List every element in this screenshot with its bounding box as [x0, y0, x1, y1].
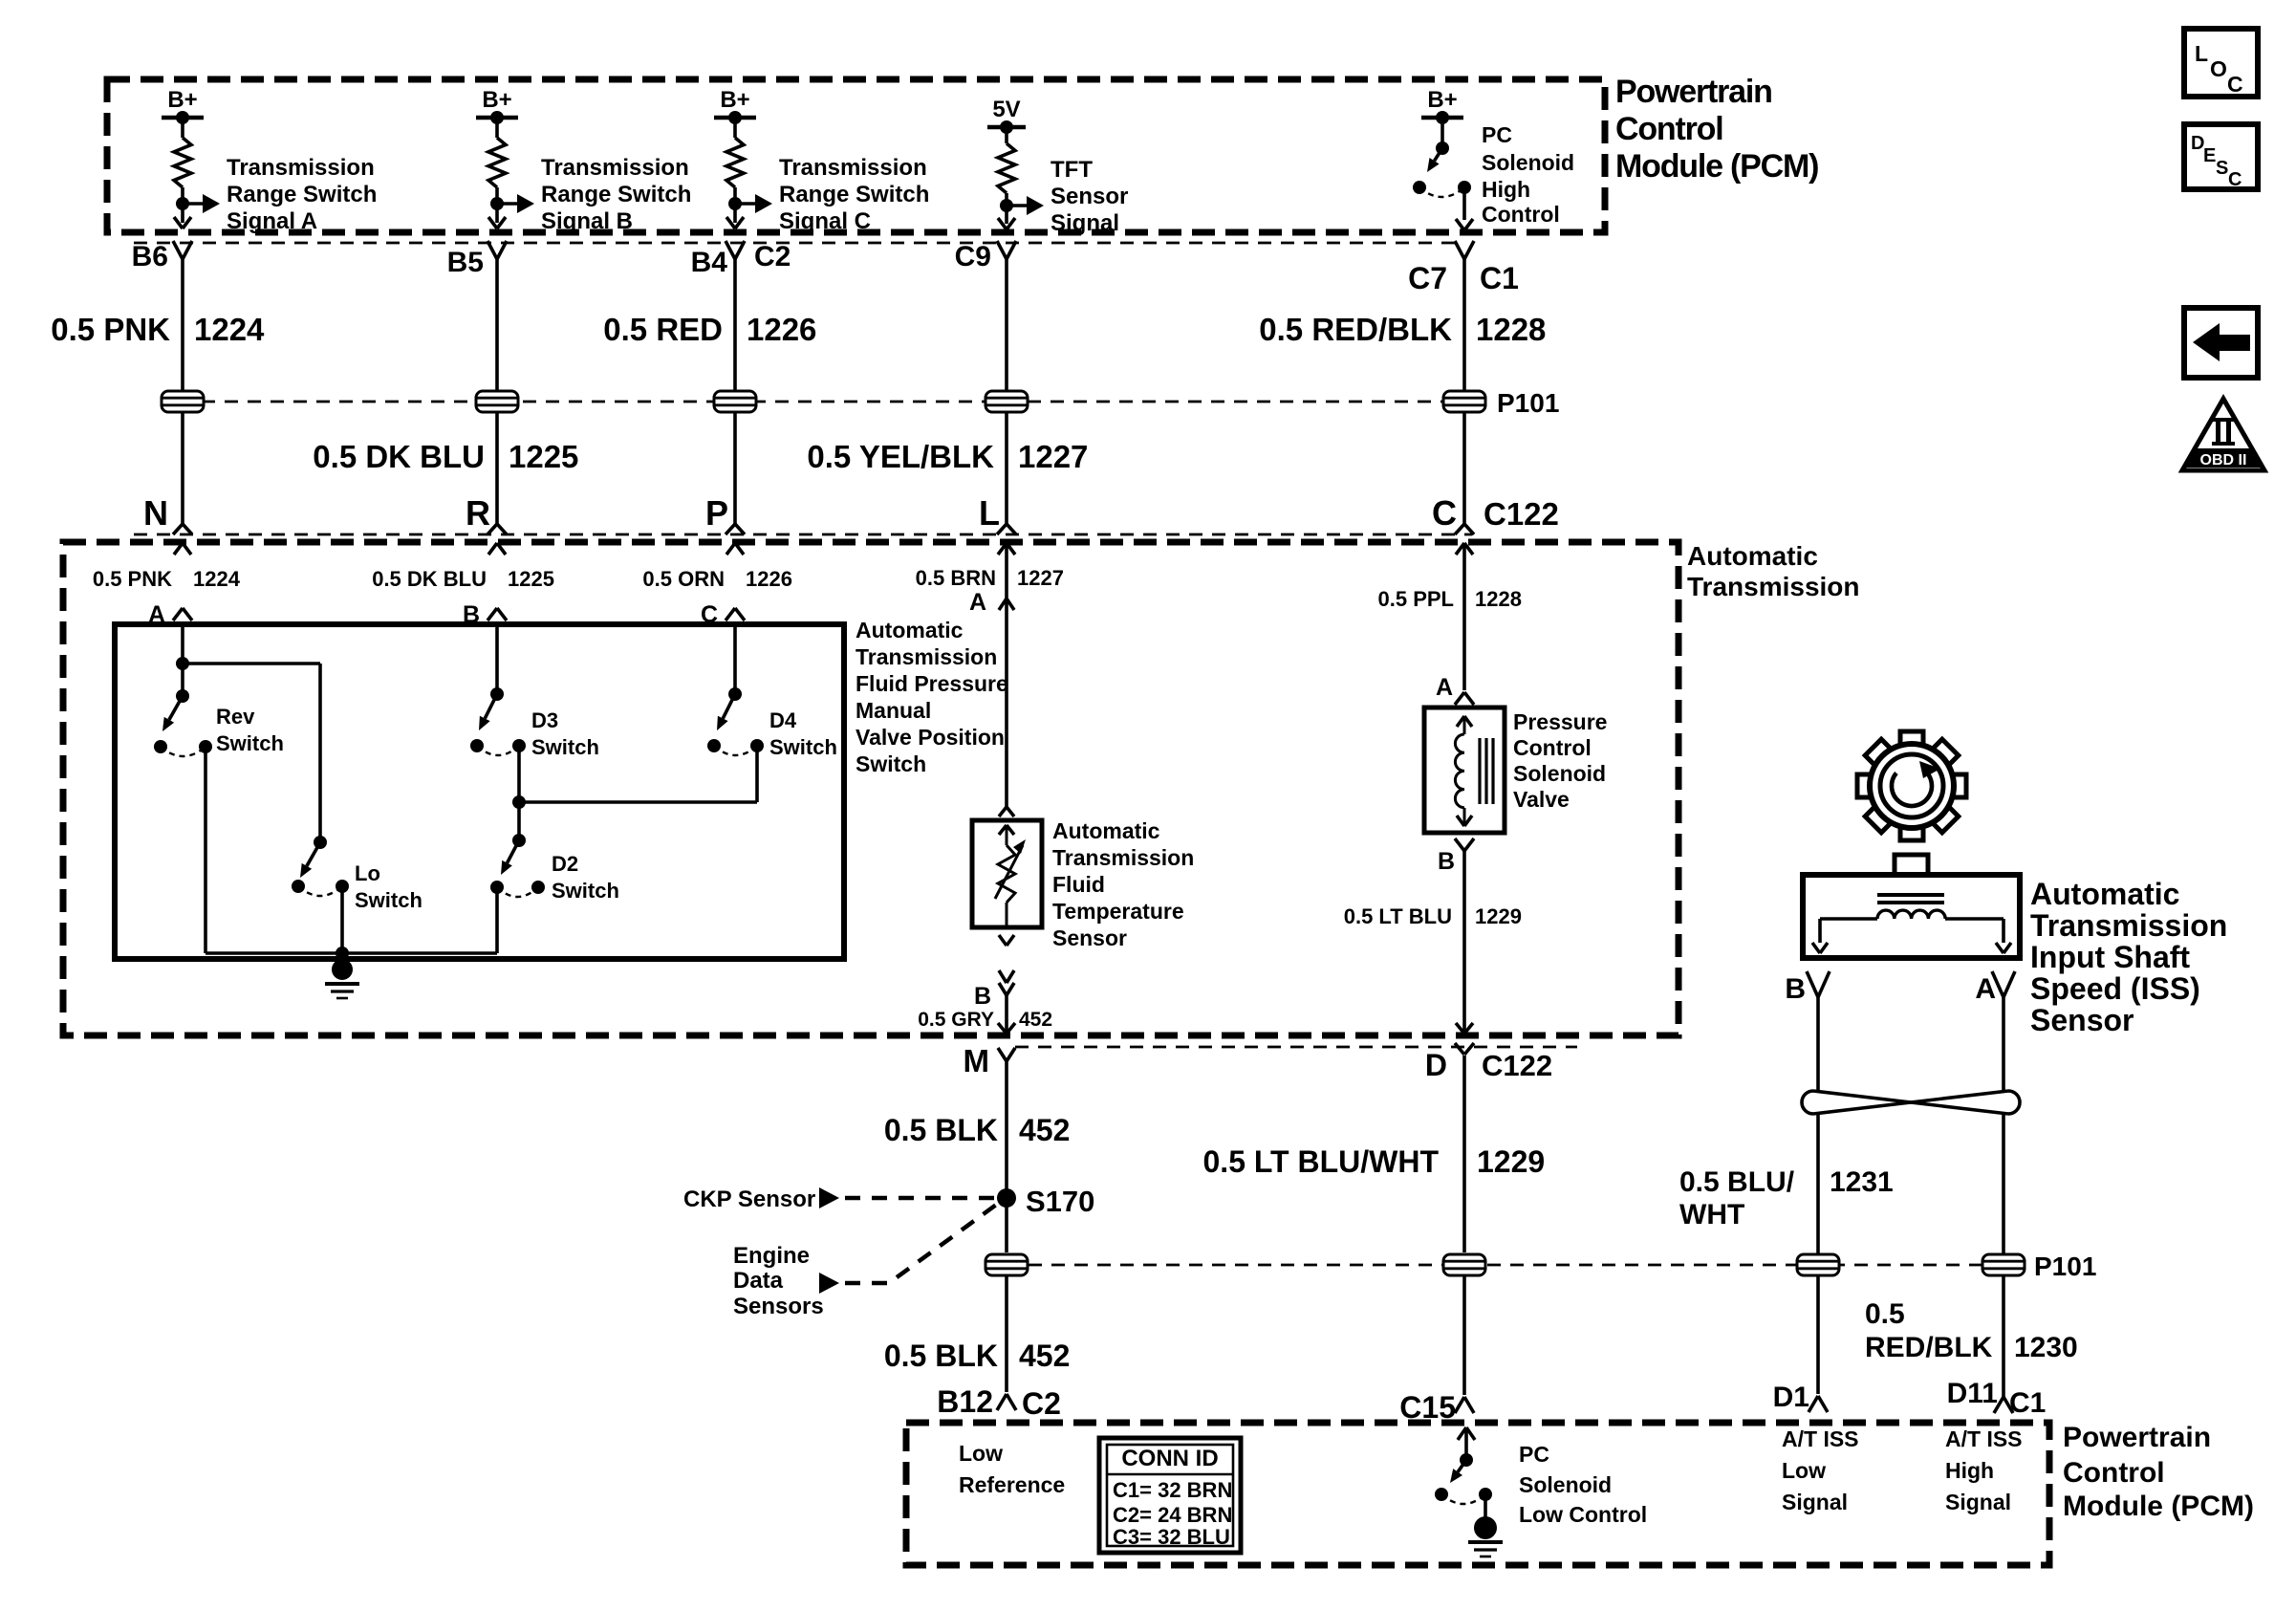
- label A/T ISS Low Signal: [1782, 1426, 1859, 1514]
- svg-text:B+: B+: [1427, 87, 1457, 113]
- wire circuit 1226 RED/ORN segment PCM to P101: [733, 259, 737, 391]
- label wire 0.5 RED/BLK 1228: [1259, 312, 1546, 347]
- node junction signal B: [490, 197, 504, 210]
- connector pin fork D11: [1994, 1397, 2013, 1413]
- svg-text:Control: Control: [1615, 111, 1722, 147]
- svg-text:Manual: Manual: [856, 698, 931, 723]
- svg-text:Module (PCM): Module (PCM): [1615, 148, 1818, 185]
- pin label A TFT: [969, 589, 986, 616]
- wire inside TFT: [999, 825, 1014, 927]
- svg-text:C: C: [2228, 169, 2242, 190]
- connector pin fork row2 x=191: [173, 524, 192, 534]
- pin label B switch box: [463, 601, 480, 628]
- svg-text:Sensor: Sensor: [2030, 1003, 2134, 1037]
- svg-text:0.5 LT BLU/WHT: 0.5 LT BLU/WHT: [1203, 1144, 1440, 1179]
- component pin fork TFT bottom: [999, 970, 1014, 995]
- wire entry arrow PC solenoid low: [1458, 1427, 1475, 1460]
- component pin fork A ISS: [1992, 971, 2015, 997]
- switch PC Solenoid Low Control driver: [1435, 1453, 1492, 1504]
- svg-text:Signal B: Signal B: [541, 208, 633, 234]
- svg-text:Switch: Switch: [355, 888, 422, 912]
- svg-text:C: C: [1432, 493, 1457, 533]
- wire PC solenoid high output: [1456, 187, 1473, 230]
- svg-text:D3: D3: [531, 708, 558, 732]
- svg-text:High: High: [1482, 177, 1530, 202]
- label Transmission Range Switch Signal B: [541, 155, 691, 234]
- label wire 0.5 BLK 452 lower: [884, 1339, 1071, 1373]
- label wire 0.5 ORN 1226 inside: [642, 567, 792, 591]
- svg-text:C: C: [2227, 72, 2243, 97]
- connector pin fork row2 x=1053: [997, 524, 1016, 534]
- label D4 Switch: [769, 708, 837, 759]
- svg-text:P: P: [705, 493, 728, 533]
- B+ supply symbol circuit B: [476, 87, 518, 124]
- svg-text:CONN ID: CONN ID: [1121, 1446, 1218, 1471]
- connector line C122 bottom thin dashed: [1015, 1046, 1577, 1049]
- svg-text:Engine: Engine: [733, 1243, 810, 1269]
- label wire 0.5 DK BLU 1225: [313, 439, 578, 474]
- svg-text:0.5 BLK: 0.5 BLK: [884, 1113, 998, 1147]
- svg-text:CKP Sensor: CKP Sensor: [683, 1186, 815, 1212]
- wire ISS internal right: [1945, 919, 2011, 953]
- label Transmission Range Switch Signal C: [779, 155, 929, 234]
- svg-text:Signal C: Signal C: [779, 208, 871, 234]
- svg-text:C2: C2: [754, 241, 791, 272]
- label Automatic Transmission Fluid Temperature Sensor: [1052, 818, 1194, 950]
- Automatic Transmission dashed box: [63, 542, 1679, 1035]
- svg-text:N: N: [143, 493, 168, 533]
- label Automatic Transmission title: [1687, 541, 1860, 601]
- label wire 0.5 LT BLU/WHT 1229: [1203, 1144, 1546, 1179]
- wire D3/D4 bus: [519, 800, 757, 804]
- svg-text:1226: 1226: [747, 312, 816, 347]
- pin label B ISS: [1785, 973, 1806, 1005]
- svg-text:0.5 PNK: 0.5 PNK: [93, 567, 172, 591]
- grommet P101 bottom at x=1053: [985, 1254, 1029, 1275]
- wire ISS low mid segment: [1816, 1114, 1820, 1253]
- connector pin fork B5: [487, 241, 507, 259]
- CONN ID table: [1099, 1438, 1241, 1553]
- node junction D3/D4 bus: [512, 795, 526, 809]
- svg-text:Switch: Switch: [552, 879, 619, 903]
- svg-text:C2: C2: [1022, 1386, 1061, 1421]
- switch PC Solenoid High Control driver: [1413, 118, 1471, 197]
- coil Pressure Control Solenoid Valve: [1455, 716, 1493, 826]
- component pin fork A PCS valve: [1455, 692, 1474, 705]
- svg-text:R: R: [466, 493, 490, 533]
- signal tap arrow A: [183, 194, 220, 213]
- label Transmission Range Switch Signal A: [227, 155, 377, 234]
- grommet P101 bottom at x=1902: [1796, 1254, 1840, 1275]
- label wire 0.5 PNK 1224: [51, 312, 265, 347]
- svg-text:452: 452: [1019, 1009, 1052, 1031]
- svg-text:0.5 LT BLU: 0.5 LT BLU: [1344, 904, 1452, 928]
- 5V supply symbol TFT circuit: [987, 97, 1026, 134]
- PCM module dashed box (bottom): [906, 1423, 2049, 1565]
- component box Pressure Control Solenoid Valve: [1424, 708, 1505, 833]
- switch D2 Switch: [490, 834, 545, 897]
- label Lo Switch: [355, 861, 422, 912]
- svg-text:C1= 32 BRN: C1= 32 BRN: [1113, 1478, 1232, 1502]
- label wire 0.5 BRN 1227 inside: [916, 566, 1064, 590]
- offpage arrow Engine Data: [819, 1273, 839, 1294]
- wire 0.5 LT BLU/WHT segment lower: [1462, 1276, 1466, 1395]
- signal tap arrow C: [735, 194, 772, 213]
- pin label A switch box: [148, 601, 165, 628]
- connector pin fork D1: [1809, 1396, 1828, 1412]
- pin label M: [964, 1043, 990, 1078]
- icon back arrow box: [2184, 308, 2258, 378]
- svg-text:0.5 DK BLU: 0.5 DK BLU: [372, 567, 487, 591]
- label Powertrain Control Module (PCM) bottom: [2063, 1422, 2254, 1522]
- wire entry arrow into A/T x=1053: [998, 543, 1015, 555]
- connector pin fork row2 x=769: [726, 524, 745, 534]
- svg-text:0.5 RED/BLK: 0.5 RED/BLK: [1259, 312, 1452, 347]
- svg-text:Transmission: Transmission: [227, 155, 375, 181]
- connector label C2 bottom: [1022, 1386, 1061, 1421]
- svg-text:Low Control: Low Control: [1519, 1502, 1647, 1527]
- svg-text:1231: 1231: [1830, 1166, 1894, 1198]
- svg-text:0.5 YEL/BLK: 0.5 YEL/BLK: [807, 439, 994, 474]
- core lines ISS pickup: [1877, 895, 1944, 903]
- wire entry arrow into A/T x=1532: [1456, 543, 1473, 555]
- wire circuit 1225 DK BLU segment P101 to C122: [495, 412, 499, 524]
- svg-text:Signal: Signal: [1782, 1490, 1848, 1514]
- label TFT Sensor Signal: [1051, 157, 1128, 236]
- label wire 0.5 PNK 1224 inside: [93, 567, 241, 591]
- svg-text:1228: 1228: [1475, 587, 1522, 611]
- splice S170: [997, 1188, 1016, 1208]
- resistor Transmission Range Switch Signal C pull-up: [726, 118, 744, 223]
- reluctor gear icon ISS: [1857, 731, 1966, 840]
- svg-text:B+: B+: [167, 87, 197, 113]
- label D3 Switch: [531, 708, 599, 759]
- wire end arrow into connector C: [726, 217, 744, 229]
- PCM module dashed box (top): [107, 79, 1605, 232]
- svg-text:Valve Position: Valve Position: [856, 725, 1005, 750]
- wire to ground PC solenoid low: [1484, 1494, 1487, 1518]
- switch Lo Switch: [292, 836, 349, 896]
- grommet P101 at x=191: [161, 391, 205, 412]
- pin label C7: [1408, 261, 1447, 295]
- connector pin fork row2 x=1532: [1455, 524, 1474, 534]
- label wire 0.5 DK BLU 1225 inside: [372, 567, 554, 591]
- svg-text:B+: B+: [720, 87, 749, 113]
- component box Manual Valve Position Switch: [115, 624, 844, 959]
- svg-text:B: B: [1785, 973, 1806, 1005]
- component pin fork B ISS: [1807, 971, 1830, 997]
- connector pin fork C7: [1455, 241, 1474, 259]
- svg-text:Reference: Reference: [959, 1472, 1065, 1497]
- svg-text:S170: S170: [1026, 1185, 1094, 1218]
- twisted pair symbol: [1802, 1091, 2020, 1114]
- svg-text:WHT: WHT: [1679, 1199, 1744, 1230]
- wire PCS valve low side: [1462, 851, 1466, 1034]
- svg-text:Switch: Switch: [769, 735, 837, 759]
- svg-text:L: L: [2195, 41, 2208, 66]
- svg-text:L: L: [979, 493, 1000, 533]
- label PC Solenoid Low Control: [1519, 1442, 1647, 1527]
- pin label B4: [691, 247, 728, 278]
- wire ISS internal left: [1812, 919, 1877, 953]
- wire ISS low upper segment: [1816, 997, 1820, 1091]
- resistor TFT sensor pull-up: [998, 127, 1015, 224]
- svg-text:1224: 1224: [193, 567, 241, 591]
- pin label B5: [447, 247, 484, 278]
- wire circuit 1228 RED/BLK segment PCM to P101: [1462, 259, 1466, 391]
- svg-text:D: D: [1425, 1048, 1447, 1082]
- grommet P101 at x=769: [713, 391, 757, 412]
- svg-text:Temperature: Temperature: [1052, 899, 1184, 924]
- svg-text:1225: 1225: [509, 439, 578, 474]
- svg-text:C1: C1: [1480, 261, 1519, 295]
- wire end arrow into connector B: [488, 217, 506, 229]
- wire ISS high upper segment: [2002, 997, 2005, 1091]
- wire entry arrow into A/T x=769: [726, 543, 744, 555]
- wire 0.5 BLK 452 upper segment: [1005, 1061, 1008, 1252]
- label wire 0.5 YEL/BLK 1227: [807, 439, 1088, 474]
- svg-text:5V: 5V: [992, 97, 1020, 122]
- ground symbol PC solenoid low: [1468, 1516, 1503, 1557]
- variable arrow TFT: [995, 839, 1026, 899]
- svg-text:D11: D11: [1947, 1378, 1998, 1409]
- label CKP Sensor: [683, 1186, 815, 1212]
- label Rev Switch: [216, 705, 284, 755]
- svg-text:Control: Control: [2063, 1457, 2165, 1489]
- resistor Transmission Range Switch Signal B pull-up: [488, 118, 506, 223]
- dashed link CKP to S170: [845, 1196, 994, 1201]
- wire D2 output down: [495, 887, 499, 953]
- svg-text:B5: B5: [447, 247, 484, 278]
- resistor variable TFT element: [998, 845, 1015, 903]
- svg-text:Range Switch: Range Switch: [541, 182, 691, 207]
- connector pin fork row2 x=520: [487, 524, 507, 534]
- label wire 0.5 PPL 1228 inside: [1378, 587, 1522, 611]
- svg-text:Rev: Rev: [216, 705, 255, 729]
- svg-text:Sensor: Sensor: [1052, 925, 1127, 950]
- svg-text:Sensors: Sensors: [733, 1294, 824, 1319]
- svg-text:P101: P101: [1497, 388, 1559, 418]
- svg-text:S: S: [2216, 158, 2228, 179]
- svg-text:Automatic: Automatic: [1052, 818, 1160, 843]
- wire circuit B into switch box: [495, 621, 499, 694]
- wire circuit C into switch box: [733, 621, 737, 694]
- svg-text:C3= 32 BLU: C3= 32 BLU: [1113, 1525, 1230, 1549]
- svg-text:M: M: [964, 1043, 990, 1078]
- svg-text:Low: Low: [959, 1441, 1003, 1466]
- wire circuit A into switch box: [181, 621, 184, 696]
- svg-text:High: High: [1945, 1458, 1994, 1483]
- svg-text:452: 452: [1019, 1339, 1070, 1373]
- resistor Transmission Range Switch Signal A pull-up: [174, 118, 191, 223]
- component pin fork B PCS valve: [1455, 838, 1474, 851]
- svg-text:0.5 GRY: 0.5 GRY: [918, 1009, 994, 1031]
- grommet P101 bottom at x=2096: [1982, 1254, 2025, 1275]
- node junction to Lo switch: [176, 657, 189, 670]
- pass-through P101 bottom thin dashed line: [1029, 1264, 2025, 1267]
- wire TFT output down: [1005, 995, 1008, 1034]
- svg-text:C2= 24 BRN: C2= 24 BRN: [1113, 1503, 1232, 1527]
- svg-text:452: 452: [1019, 1113, 1070, 1147]
- label P101 bottom: [2034, 1252, 2096, 1281]
- component box TFT sensor: [972, 820, 1042, 927]
- label wire 0.5 GRY 452: [918, 1009, 1052, 1031]
- connector tab ISS box: [1895, 855, 1928, 875]
- svg-text:0.5 BRN: 0.5 BRN: [916, 566, 996, 590]
- coil ISS pickup: [1877, 910, 1945, 919]
- icon OBD II triangle: [2182, 399, 2264, 470]
- svg-text:A/T ISS: A/T ISS: [1782, 1426, 1859, 1451]
- pin fork A TFT: [999, 599, 1014, 610]
- svg-text:Module (PCM): Module (PCM): [2063, 1491, 2254, 1522]
- svg-text:Low: Low: [1782, 1458, 1826, 1483]
- wire entry arrow into A/T x=191: [174, 543, 191, 555]
- label wire 0.5 BLK 452 upper: [884, 1113, 1071, 1147]
- svg-text:Valve: Valve: [1513, 787, 1570, 812]
- wire entry arrow into A/T x=520: [488, 543, 506, 555]
- svg-text:Solenoid: Solenoid: [1513, 761, 1606, 786]
- icon LOC box: [2184, 29, 2258, 97]
- label A/T ISS High Signal: [1945, 1426, 2023, 1514]
- svg-text:Switch: Switch: [216, 731, 284, 755]
- svg-text:1227: 1227: [1018, 439, 1088, 474]
- wire circuit 1227 YEL/BLK segment P101 to C122: [1005, 412, 1008, 524]
- wire ISS high lower segment: [2002, 1276, 2005, 1397]
- svg-text:Range Switch: Range Switch: [227, 182, 377, 207]
- svg-text:RED/BLK: RED/BLK: [1865, 1332, 1993, 1363]
- wire circuit 1225 DK BLU segment PCM to P101: [495, 259, 499, 391]
- connector line C122 thin dashed: [134, 533, 1472, 536]
- svg-text:Transmission: Transmission: [779, 155, 927, 181]
- wire ground bus: [206, 951, 497, 955]
- svg-text:Transmission: Transmission: [2030, 908, 2227, 943]
- pin label N: [143, 493, 168, 533]
- wire branch to Lo switch: [183, 664, 320, 842]
- svg-text:PC: PC: [1519, 1442, 1549, 1467]
- node junction signal C: [728, 197, 742, 210]
- svg-text:1225: 1225: [508, 567, 554, 591]
- svg-text:C1: C1: [2009, 1387, 2046, 1419]
- grommet P101 at x=1532: [1442, 391, 1486, 412]
- svg-text:B+: B+: [482, 87, 511, 113]
- label S170: [1026, 1185, 1094, 1218]
- svg-text:C122: C122: [1484, 496, 1559, 532]
- signal tap arrow TFT: [1007, 196, 1044, 215]
- label PC Solenoid High Control: [1482, 122, 1574, 227]
- svg-text:0.5 BLK: 0.5 BLK: [884, 1339, 998, 1373]
- pin label C switch box: [701, 601, 718, 628]
- pin label B PCS valve: [1438, 848, 1455, 875]
- wire end arrow at A/T bottom w4: [998, 1023, 1015, 1034]
- grommet P101 bottom at x=1532: [1442, 1254, 1486, 1275]
- pin label B6: [132, 241, 168, 272]
- wire ISS low lower segment: [1816, 1276, 1820, 1394]
- wire D3 output down: [517, 746, 521, 840]
- B+ supply symbol PC solenoid driver: [1421, 87, 1463, 124]
- switch Rev Switch: [154, 689, 212, 756]
- wire PC solenoid circuit inside A/T: [1462, 543, 1466, 690]
- B+ supply symbol circuit C: [714, 87, 756, 124]
- svg-text:Powertrain: Powertrain: [1615, 74, 1772, 110]
- svg-text:D1: D1: [1773, 1382, 1809, 1413]
- svg-text:0.5 DK BLU: 0.5 DK BLU: [313, 439, 485, 474]
- svg-text:Signal: Signal: [1945, 1490, 2011, 1514]
- pin label R: [466, 493, 490, 533]
- wire end arrow at A/T bottom w5: [1456, 1023, 1473, 1034]
- label Powertrain Control Module (PCM) top: [1615, 74, 1818, 185]
- pin label D11: [1947, 1378, 1998, 1409]
- svg-text:1229: 1229: [1475, 904, 1522, 928]
- svg-text:0.5 PPL: 0.5 PPL: [1378, 587, 1454, 611]
- pin label C15: [1399, 1390, 1456, 1425]
- pin label L: [979, 493, 1000, 533]
- switch D4 Switch: [707, 687, 764, 755]
- svg-text:Control: Control: [1482, 202, 1560, 227]
- svg-text:B4: B4: [691, 247, 728, 278]
- svg-text:0.5 RED: 0.5 RED: [603, 312, 723, 347]
- pin label P: [705, 493, 728, 533]
- label P101 top: [1497, 388, 1559, 418]
- svg-text:Transmission: Transmission: [1687, 572, 1860, 601]
- wire circuit 1224 PNK segment PCM to P101: [181, 259, 184, 391]
- svg-text:Solenoid: Solenoid: [1519, 1472, 1612, 1497]
- label Engine Data Sensors: [733, 1243, 824, 1319]
- svg-text:A: A: [969, 589, 986, 616]
- offpage arrow CKP: [819, 1187, 839, 1208]
- label wire 0.5 LT BLU 1229: [1344, 904, 1522, 928]
- svg-text:PC: PC: [1482, 122, 1512, 147]
- svg-text:Signal A: Signal A: [227, 208, 317, 234]
- svg-text:C122: C122: [1482, 1049, 1552, 1082]
- pin label C9: [955, 241, 991, 272]
- switch pin fork C: [726, 608, 745, 620]
- connector pin fork B12: [997, 1394, 1016, 1410]
- svg-text:Range Switch: Range Switch: [779, 182, 929, 207]
- pin label A PCS valve: [1436, 674, 1453, 701]
- svg-text:1227: 1227: [1017, 566, 1064, 590]
- node junction ground bus: [336, 947, 349, 960]
- svg-text:OBD II: OBD II: [2200, 452, 2247, 468]
- ground symbol switch box: [325, 953, 359, 998]
- wire Lo switch output down: [340, 886, 344, 953]
- svg-text:Transmission: Transmission: [1052, 845, 1194, 870]
- svg-text:O: O: [2210, 56, 2227, 81]
- label Automatic Transmission Fluid Pressure Manual Valve Position Switch: [856, 618, 1008, 776]
- label D2 Switch: [552, 852, 619, 903]
- switch D3 Switch: [470, 687, 526, 755]
- grommet P101 at x=520: [475, 391, 519, 412]
- svg-text:Data: Data: [733, 1268, 784, 1294]
- wire circuit 1226 RED/ORN segment P101 to C122: [733, 412, 737, 524]
- svg-text:B: B: [1438, 848, 1455, 875]
- connector pin fork B6: [173, 241, 192, 259]
- component box ISS sensor: [1803, 875, 2020, 958]
- node junction TFT signal: [1000, 199, 1013, 212]
- svg-text:D2: D2: [552, 852, 578, 876]
- signal tap arrow B: [497, 194, 534, 213]
- svg-text:1224: 1224: [194, 312, 265, 347]
- node junction signal A: [176, 197, 189, 210]
- connector pin fork B4: [726, 241, 745, 259]
- wire 0.5 BLK 452 lower segment: [1005, 1276, 1008, 1392]
- svg-text:Fluid Pressure: Fluid Pressure: [856, 671, 1008, 696]
- svg-text:0.5 ORN: 0.5 ORN: [642, 567, 725, 591]
- component pin fork TFT top: [999, 807, 1014, 816]
- svg-text:Transmission: Transmission: [541, 155, 689, 181]
- svg-text:Automatic: Automatic: [856, 618, 964, 642]
- svg-text:1230: 1230: [2014, 1332, 2078, 1363]
- pin label C: [1432, 493, 1457, 533]
